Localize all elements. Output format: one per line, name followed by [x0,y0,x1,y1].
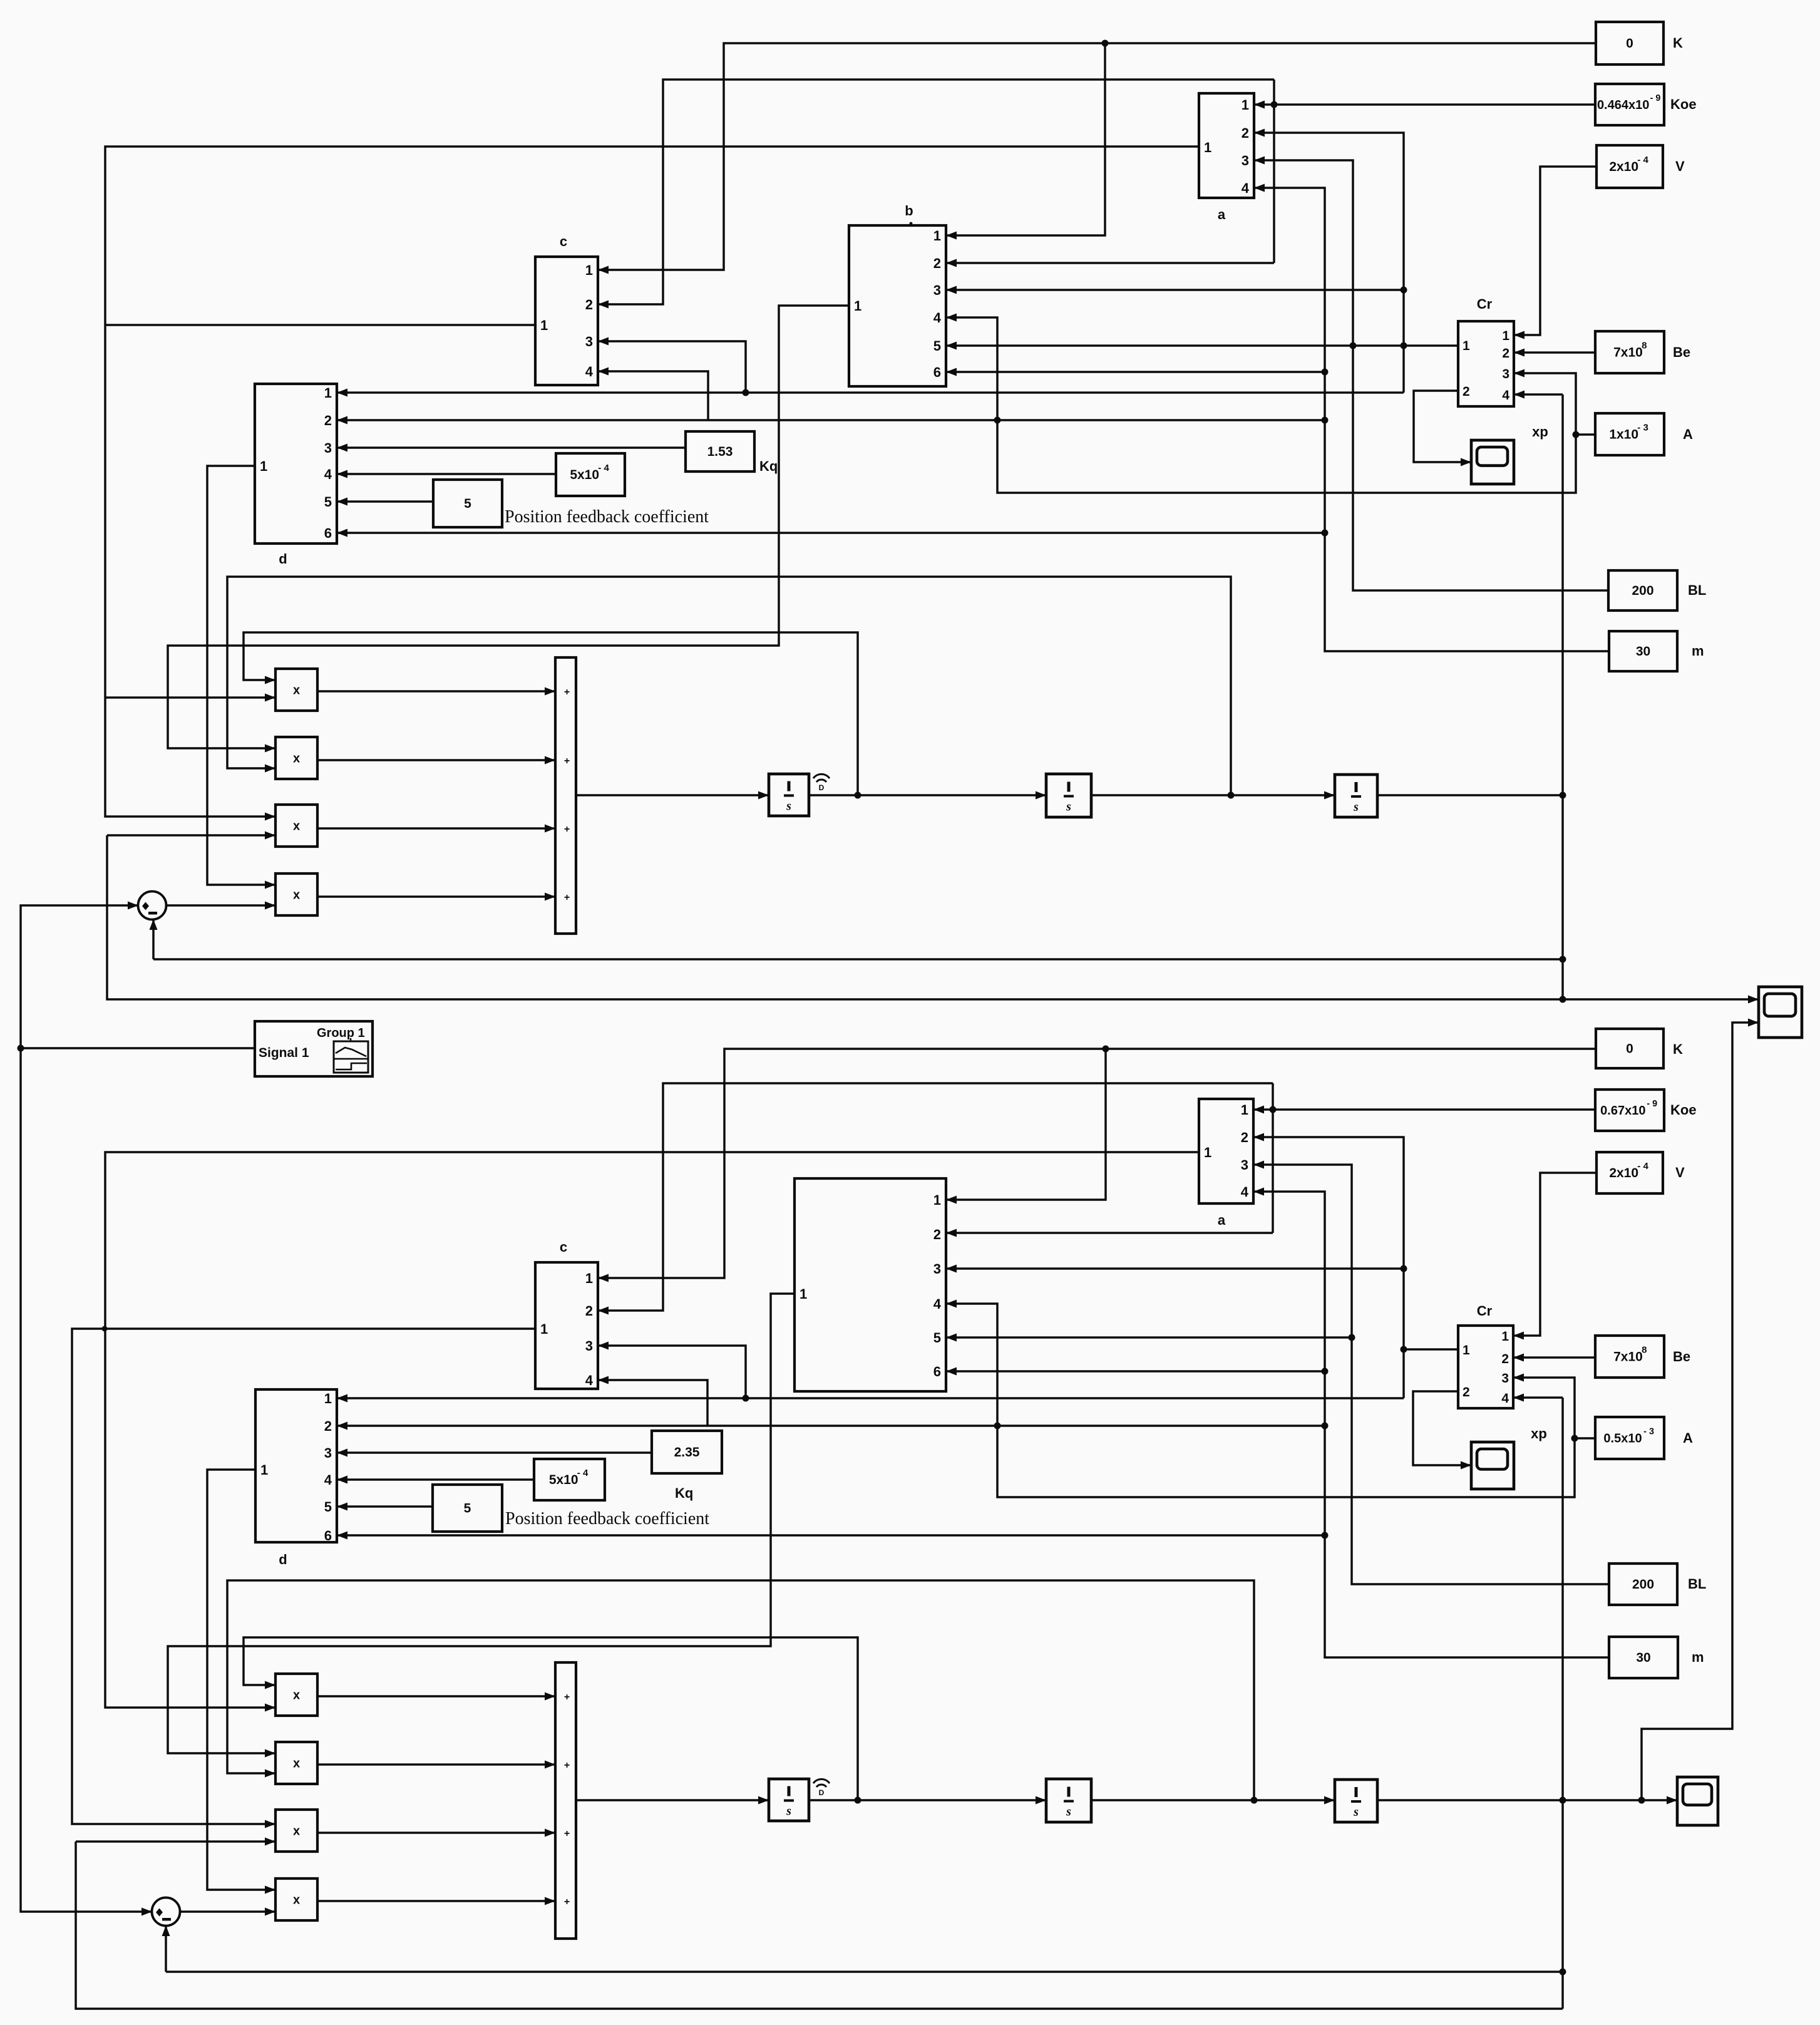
integrator 1/s I1 [769,774,809,816]
junction 200-2 riser/b2.5 [1349,1334,1355,1341]
junction x2496/I3-2 out [1560,1797,1566,1804]
svg-text:s: s [1066,1805,1071,1819]
junction d.1 line/c.3 [743,389,749,396]
svg-text:5: 5 [464,1502,471,1516]
junction x2496/y1532 [1560,956,1566,963]
svg-text:1: 1 [260,1462,268,1478]
subsystem a2 [1199,1099,1253,1228]
svg-text:BL: BL [1688,582,1706,598]
constant 5x10^-4 (top) [556,453,625,496]
constant A (1x10^-3) [1595,413,1693,455]
svg-text:c: c [560,234,567,249]
junction I2 out [1228,792,1235,799]
svg-text:4: 4 [933,310,942,326]
svg-text:1: 1 [324,1391,332,1406]
svg-text:V: V [1675,158,1685,174]
svg-text:a: a [1218,207,1226,222]
junction K2/b2.1 [1103,1046,1109,1053]
svg-text:4: 4 [1502,388,1509,403]
wire I2 out feedback to X2 lower [227,577,1231,795]
wire b.3 line [946,289,1404,291]
wire X4-2 out to sum bar [317,1900,555,1902]
wire X3-2 lower branch [76,1840,275,1843]
svg-text:x: x [293,1757,300,1771]
junction I1 out [855,792,861,799]
wire V2 to Cr2.1 right [1513,1173,1596,1336]
svg-text:0.5x10: 0.5x10 [1603,1432,1642,1446]
wire branch to c.2 [598,80,1274,304]
svg-text:4: 4 [1241,1184,1249,1200]
svg-text:5: 5 [464,497,471,511]
svg-text:Signal 1: Signal 1 [259,1046,309,1060]
svg-text:5x10: 5x10 [570,468,599,482]
svg-text:1: 1 [854,298,861,314]
wire d.6 line [337,532,1325,534]
svg-text:6: 6 [324,1528,332,1543]
svg-text:Kq: Kq [759,458,778,474]
junction b.3/x2242 [1401,287,1407,294]
junction x2496/y1596 [1560,996,1566,1003]
wire branch to b.2 [946,262,1274,264]
multiplier X1 [275,669,317,711]
wire I3-2 out to bottom scope [1377,1799,1677,1801]
wire X3 lower branch [107,834,275,837]
svg-text:1: 1 [933,228,941,244]
wire I1 out feedback to X1 upper [244,632,858,795]
svg-text:2x10: 2x10 [1609,1166,1638,1180]
wire d2.1 long line [337,1397,1404,1399]
svg-text:4: 4 [1242,180,1250,196]
wire V to Cr.1 right [1514,167,1596,335]
junction b.4 riser on N2 line [994,417,1001,424]
svg-text:A: A [1683,426,1693,442]
wire a2.2 down x2242 [1253,1137,1404,1398]
svg-text:200: 200 [1632,1577,1654,1592]
integrator 1/s I2-2 [1046,1779,1091,1822]
wire junction to Cr2.3 right [1513,1378,1575,1438]
svg-text:1: 1 [1501,1329,1509,1344]
svg-text:x: x [293,684,300,698]
svg-text:1: 1 [260,458,267,474]
svg-text:4: 4 [585,1373,594,1388]
svg-text:3: 3 [585,334,593,349]
wire signal builder output trunk [21,1047,255,1049]
wire d.1 long line [337,391,1404,394]
scope xp (top) [1471,424,1548,484]
svg-text:1: 1 [1502,329,1509,343]
constant BL2 (200) [1609,1564,1706,1605]
wire b.6 line [946,371,1325,373]
wire X2-2 out to sum bar [317,1763,555,1766]
wire I1-2 out to I2-2 [809,1799,1046,1801]
constant V2 (2x10^-4) [1596,1152,1685,1193]
svg-text:1: 1 [933,1192,941,1208]
svg-text:D: D [819,1788,825,1797]
wire d left output to X4 upper [207,466,275,885]
svg-text:3: 3 [1501,1371,1509,1386]
svg-text:K: K [1673,35,1683,51]
gain Kq (1.53) [686,431,778,474]
wire d2.6 line [337,1534,1325,1537]
wire I1-2 out feedback to X1-2 upper [244,1637,858,1800]
junction 30-2 riser/d2.2 line [1322,1423,1329,1430]
svg-text:m: m [1692,643,1704,659]
wire sum bar out to I1 [576,794,769,796]
wire I3 out to x2496 [1377,794,1563,796]
output scope (shared, right middle) [1759,987,1802,1038]
svg-text:d: d [279,551,287,567]
svg-text:x: x [293,820,300,833]
subsystem c [535,234,598,385]
svg-text:0: 0 [1626,36,1633,51]
wire y1532 feedback to circle bottom [152,919,155,959]
svg-text:s: s [786,800,791,813]
svg-text:1: 1 [585,1270,593,1286]
wire c2 left input line and X3-2 upper riser [72,1329,535,1824]
junction I1-2 out [855,1797,861,1804]
junction 30-2 riser/b2.6 [1322,1368,1329,1375]
junction 30 riser/b.6 line [1322,369,1329,376]
junction Koe2/a2.1 [1270,1106,1277,1113]
svg-text:m: m [1692,1649,1704,1665]
wire Cr2.1 left input line [1404,1348,1458,1351]
constant BL (200) [1608,570,1706,611]
logging badge I1 [813,774,830,792]
svg-text:3: 3 [324,1445,332,1461]
junction K/b.1 [1102,40,1109,47]
svg-text:b: b [905,203,913,219]
svg-text:2: 2 [933,1227,941,1242]
svg-text:- 4: - 4 [598,463,609,473]
svg-text:2: 2 [324,1418,332,1434]
multiplier X4 [275,873,317,915]
wire I2 out to I3 [1091,794,1335,796]
wire 30-2 to a2.4 [1253,1192,1609,1657]
svg-text:2: 2 [1502,346,1509,361]
wire d2.2 line (net of 30-2) [337,1425,1325,1427]
wire d2 left output to X4-2 upper [207,1470,275,1890]
wire Be to Cr.2 right [1514,351,1595,354]
wire bottom output jog to shared scope input 2 [1642,1023,1759,1800]
svg-text:3: 3 [933,282,941,298]
wire d.2 line (net of 30) [337,419,1325,421]
multiplier X2 [275,737,317,779]
svg-text:8: 8 [1642,1345,1647,1356]
wire branch to X1 lower [105,696,275,699]
svg-text:4: 4 [1501,1391,1509,1406]
svg-text:x: x [293,1689,300,1703]
wire a left output trunk [105,147,1198,817]
svg-text:6: 6 [324,525,332,541]
wire 5x10^-4 to d.4 [337,473,556,475]
scope xp2 [1471,1426,1547,1489]
svg-text:Kq: Kq [675,1485,693,1501]
sum junction circle (bottom) [152,1898,180,1926]
svg-text:+: + [564,892,570,903]
svg-text:Position feedback coefficient: Position feedback coefficient [505,507,709,527]
svg-text:2: 2 [585,1303,593,1319]
svg-text:1x10: 1x10 [1609,428,1638,442]
wire 5x10^-4-2 to d2.4 [337,1478,534,1481]
constant Be2 (7x10^8) [1595,1336,1690,1378]
logging badge I1-2 [813,1779,830,1797]
svg-text:+: + [564,1897,570,1907]
svg-text:x: x [293,889,300,902]
svg-text:Koe: Koe [1670,1102,1697,1118]
wire branch to c2.2 [598,1083,1273,1311]
junction d2.1 line/c2.3 [743,1395,749,1402]
integrator 1/s I2 [1046,774,1091,817]
wire 30 to a.4 [1254,188,1609,651]
wire X1 out to sum bar [317,690,555,693]
wire X1-2 out to sum bar [317,1695,555,1698]
svg-text:Be: Be [1673,344,1690,360]
svg-text:2: 2 [1501,1352,1509,1366]
svg-text:6: 6 [933,364,941,380]
signal builder: Signal 1 / Group 1 [255,1021,373,1076]
junction x2496/I3 out [1560,792,1566,799]
svg-text:4: 4 [324,1472,332,1488]
svg-text:- 3: - 3 [1643,1427,1654,1437]
svg-text:1: 1 [799,1286,807,1302]
svg-text:c: c [560,1239,567,1255]
constant 5 (top) [433,480,502,527]
svg-text:1: 1 [1241,1102,1248,1118]
svg-text:30: 30 [1636,1651,1650,1665]
subsystem Cr [1458,296,1514,406]
svg-text:3: 3 [1241,1157,1248,1173]
wire A to junction [1576,433,1595,436]
wire b2.3 line [946,1267,1404,1270]
junction b2.4 riser on N2 line [994,1423,1001,1430]
subsystem d [255,384,337,567]
svg-text:- 4: - 4 [577,1468,589,1478]
wire signal down to bottom sum circle [21,1048,152,1912]
wire junction down and left to b.4 [946,317,1576,493]
svg-text:s: s [786,1805,791,1818]
svg-text:2: 2 [324,413,332,428]
svg-text:0.464x10: 0.464x10 [1597,98,1649,112]
svg-text:A: A [1683,1430,1693,1446]
svg-text:xp: xp [1531,1426,1547,1441]
svg-text:s: s [1066,800,1071,814]
svg-text:1: 1 [585,262,593,278]
svg-text:1: 1 [1204,1145,1211,1160]
subsystem b [849,203,946,386]
integrator 1/s I3-2 [1335,1780,1377,1822]
wire Koe2 to a2.1 [1253,1108,1595,1111]
wire I1 out to I2 [809,794,1046,796]
wire Cr2.2 left to scope xp2 [1413,1391,1471,1465]
sum junction circle (top) [138,892,167,920]
wire branch to c left input [105,324,535,326]
svg-text:0: 0 [1626,1042,1633,1056]
svg-text:30: 30 [1636,644,1650,659]
multiplier X4-2 [275,1878,317,1920]
svg-text:2: 2 [1241,1130,1248,1145]
wire b left output to X2 upper [168,306,849,748]
wire Be2 to Cr2.2 right [1513,1356,1595,1359]
svg-text:1.53: 1.53 [707,445,733,459]
output scope (bottom) [1677,1777,1718,1825]
svg-text:4: 4 [324,466,332,482]
svg-text:7x10: 7x10 [1613,346,1643,360]
svg-text:5: 5 [933,338,941,354]
constant m (30) [1609,631,1704,671]
svg-text:x: x [293,752,300,766]
svg-text:200: 200 [1632,584,1653,598]
multiplier X3-2 [275,1810,317,1852]
wire Koe to a.1 [1254,103,1595,106]
wire X2 out to sum bar [317,759,555,761]
svg-text:x: x [293,1825,300,1838]
svg-text:1: 1 [1463,339,1470,353]
svg-text:Cr: Cr [1477,1303,1493,1319]
multiplier X1-2 [275,1674,317,1716]
svg-text:1: 1 [1204,140,1211,155]
svg-text:3: 3 [933,1261,941,1277]
wire A2 to junction [1575,1437,1595,1440]
wire junction to Cr.3 right [1514,373,1576,435]
svg-text:2x10: 2x10 [1609,160,1638,174]
svg-text:- 4: - 4 [1637,155,1648,165]
svg-text:Koe: Koe [1670,96,1697,112]
wire K2 to c2.1 and b2.1 [598,1049,1596,1278]
svg-text:4: 4 [933,1296,942,1312]
svg-text:5: 5 [324,1499,332,1515]
svg-text:+: + [564,1692,570,1703]
wire sum circle out to X4 lower [166,904,275,907]
integrator 1/s I1-2 [769,1779,809,1821]
svg-text:+: + [564,1760,570,1771]
wire Kq2 to d2.3 [337,1451,652,1454]
svg-text:+: + [564,824,570,835]
junction Koe/a.1 [1271,101,1278,108]
constant K (0) [1596,22,1683,64]
svg-text:+: + [564,687,570,698]
constant Koe (0.464x10^-9) [1595,84,1697,125]
integrator 1/s I3 [1335,775,1377,817]
wire Koe2 riser x2033 [1272,1083,1274,1233]
svg-text:- 4: - 4 [1637,1161,1648,1172]
gain Kq2 (2.35) [652,1431,722,1501]
constant Koe2 (0.67x10^-9) [1595,1090,1697,1131]
wire Koe riser x2035 [1273,80,1275,263]
svg-text:K: K [1673,1041,1683,1057]
junction 30-2 riser/d2.6 line [1322,1532,1329,1539]
svg-text:D: D [819,783,825,792]
wire X3-2 out to sum bar [317,1832,555,1834]
wire b2.6 line [946,1370,1325,1373]
svg-text:3: 3 [1502,367,1509,381]
sum bar (top) [555,657,576,934]
svg-text:+: + [564,756,570,766]
subsystem Cr2 [1458,1303,1513,1408]
svg-text:- 9: - 9 [1647,1099,1657,1109]
wire K to c.1 and b.1 [598,43,1596,270]
svg-text:1: 1 [1242,97,1249,113]
wire I2-2 out to I3-2 [1091,1799,1335,1801]
svg-text:- 9: - 9 [1650,93,1661,103]
svg-text:7x10: 7x10 [1613,1350,1643,1364]
wire branch to b.1 [946,43,1105,235]
svg-text:5x10: 5x10 [549,1473,578,1487]
wire Cr.4 right from x2496 [1514,393,1563,396]
wire y3149 feedback to circle2 bottom [165,1925,167,1972]
sum bar (bottom) [555,1662,576,1939]
wire long vertical x2496 (Cr2.4 feedback) [1561,1398,1564,2009]
constant K2 (0) [1596,1029,1683,1068]
wire y1596 feedback line to scope [107,835,1759,999]
wire signal up to top sum circle [21,905,138,1048]
subsystem d2 [255,1389,337,1567]
subsystem c2 [535,1239,598,1389]
svg-text:3: 3 [324,440,332,456]
subsystem b2 (large) [794,1178,946,1391]
svg-text:2: 2 [1463,384,1470,399]
wire b2 left output to X2-2 upper [168,1294,794,1753]
constant m2 (30) [1609,1637,1704,1678]
constant V (2x10^-4) [1596,145,1685,188]
wire Cr2.4 right from x2496 [1513,1396,1563,1399]
constant 5 (bottom) [433,1485,502,1532]
junction x2496/y3149 [1560,1969,1566,1976]
wire I2-2 out feedback to X2-2 lower [227,1580,1254,1800]
junction 30 riser/d.2 line [1322,417,1329,424]
wire branch to b2.2 [946,1232,1273,1234]
svg-text:1: 1 [324,385,332,401]
svg-text:2: 2 [585,297,593,312]
svg-text:1: 1 [540,317,548,333]
svg-text:Group 1: Group 1 [317,1026,365,1040]
svg-text:1: 1 [540,1321,548,1337]
junction Cr.1 line/x2242 [1401,343,1407,349]
wire y3208 feedback line [76,1842,1563,2009]
svg-text:+: + [564,1828,570,1839]
svg-text:x: x [293,1894,300,1907]
wire 5-2 to d2.5 [337,1505,433,1508]
wire Cr.1 left input line from b.5 [946,344,1458,347]
svg-text:2: 2 [1242,125,1249,141]
svg-text:0.67x10: 0.67x10 [1600,1104,1645,1118]
svg-text:2: 2 [1463,1385,1470,1399]
svg-text:1: 1 [1463,1343,1470,1358]
wire branch to b2.1 [946,1049,1106,1200]
constant A2 (0.5x10^-3) [1595,1417,1693,1459]
wire 200 to a.3 [1254,160,1608,590]
wire branch to c.3 [598,341,746,393]
multiplier X2-2 [275,1742,317,1784]
junction A/Cr.3/b.4 [1573,431,1580,438]
wire junction down and left to b2.4 [946,1304,1575,1497]
multiplier X3 [275,805,317,847]
svg-text:BL: BL [1688,1576,1706,1592]
svg-text:xp: xp [1532,424,1548,440]
wire branch to c.4 [598,371,708,420]
svg-text:3: 3 [585,1338,593,1354]
wire Cr.2 left to scope xp [1414,391,1471,462]
svg-text:s: s [1353,800,1359,814]
junction trunk/c2-left line [102,1326,108,1332]
subsystem a [1199,93,1254,222]
svg-text:2.35: 2.35 [674,1445,700,1460]
svg-text:8: 8 [1642,341,1647,351]
wire long vertical x2496 (Cr.4 feedback) [1561,394,1564,999]
wire a.2 down x2242 [1254,133,1404,393]
junction A2/Cr2.3/b2.4 [1571,1435,1578,1442]
svg-text:5: 5 [324,494,332,510]
wire Kq to d.3 [337,446,686,449]
